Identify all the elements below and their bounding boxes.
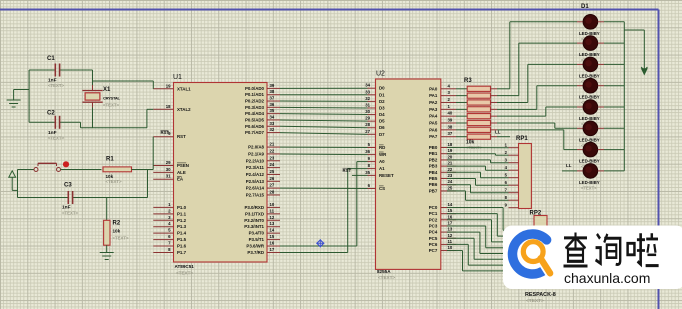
- svg-text:P2.7/A15: P2.7/A15: [246, 193, 265, 198]
- svg-text:25: 25: [270, 169, 275, 174]
- svg-text:PA6: PA6: [429, 127, 438, 132]
- svg-text:PB4: PB4: [429, 170, 438, 175]
- svg-text:D6: D6: [379, 125, 385, 130]
- svg-text:34: 34: [270, 115, 275, 120]
- svg-text:PA0: PA0: [429, 86, 438, 91]
- svg-text:P1.6: P1.6: [177, 244, 187, 249]
- svg-text:PA3: PA3: [429, 107, 438, 112]
- svg-text:23: 23: [448, 173, 453, 178]
- svg-text:P3.0/RXD: P3.0/RXD: [244, 205, 264, 210]
- svg-text:LED-BIBY: LED-BIBY: [579, 31, 600, 36]
- svg-text:P3.3/INT1: P3.3/INT1: [244, 224, 264, 229]
- svg-text:CS: CS: [379, 186, 385, 191]
- svg-text:10: 10: [448, 245, 453, 250]
- svg-text:CRYSTAL: CRYSTAL: [103, 96, 121, 101]
- svg-text:<TEXT>: <TEXT>: [526, 298, 544, 304]
- svg-text:P0.5/AD5: P0.5/AD5: [245, 118, 265, 123]
- svg-text:P3.2/INT0: P3.2/INT0: [244, 218, 264, 223]
- svg-text:15: 15: [270, 234, 275, 239]
- svg-text:8255A: 8255A: [377, 269, 391, 274]
- svg-text:PB2: PB2: [429, 157, 438, 162]
- svg-text:PA4: PA4: [429, 114, 438, 119]
- svg-text:P1.4: P1.4: [177, 231, 187, 236]
- svg-text:24: 24: [448, 179, 453, 184]
- svg-text:<TEXT>: <TEXT>: [48, 83, 64, 88]
- svg-text:26: 26: [270, 176, 275, 181]
- svg-text:38: 38: [270, 89, 275, 94]
- svg-text:PA7: PA7: [429, 134, 438, 139]
- svg-text:18: 18: [166, 104, 171, 109]
- svg-text:P3.5/T1: P3.5/T1: [249, 237, 265, 242]
- svg-text:LED-BIBY: LED-BIBY: [579, 73, 600, 78]
- svg-text:<TEXT>: <TEXT>: [378, 275, 395, 280]
- svg-text:P2.6/A14: P2.6/A14: [246, 186, 265, 191]
- svg-text:LED-BIBY: LED-BIBY: [579, 116, 600, 121]
- svg-text:32: 32: [365, 96, 370, 101]
- svg-text:40: 40: [448, 111, 453, 116]
- svg-text:C1: C1: [47, 56, 55, 62]
- svg-text:19: 19: [166, 83, 171, 88]
- svg-text:21: 21: [270, 142, 275, 147]
- svg-text:<TEXT>: <TEXT>: [176, 271, 193, 276]
- svg-text:PA5: PA5: [429, 121, 438, 126]
- svg-text:P2.0/A8: P2.0/A8: [248, 145, 264, 150]
- svg-text:P2.2/A10: P2.2/A10: [246, 158, 265, 163]
- svg-text:10k: 10k: [113, 229, 121, 234]
- svg-text:<TEXT>: <TEXT>: [62, 211, 78, 216]
- svg-text:P0.4/AD4: P0.4/AD4: [245, 111, 265, 116]
- svg-text:C3: C3: [64, 183, 72, 189]
- svg-text:P3.4/T0: P3.4/T0: [249, 231, 265, 236]
- svg-text:P0.6/AD6: P0.6/AD6: [245, 124, 265, 129]
- svg-text:D3: D3: [379, 106, 385, 111]
- svg-text:P1.1: P1.1: [177, 211, 187, 216]
- svg-text:29: 29: [166, 160, 171, 165]
- svg-text:D1: D1: [379, 92, 385, 97]
- svg-text:33: 33: [270, 121, 275, 126]
- svg-text:PB5: PB5: [429, 176, 438, 181]
- svg-text:36: 36: [365, 149, 370, 154]
- svg-text:25: 25: [448, 185, 453, 190]
- svg-text:12: 12: [448, 233, 453, 238]
- svg-text:D1: D1: [581, 4, 589, 10]
- svg-text:20: 20: [448, 154, 453, 159]
- svg-text:WR: WR: [379, 152, 387, 157]
- svg-text:12: 12: [270, 215, 275, 220]
- svg-text:P1.2: P1.2: [177, 218, 187, 223]
- svg-text:34: 34: [365, 83, 370, 88]
- svg-text:P3.6/WR: P3.6/WR: [246, 244, 264, 249]
- svg-text:PB7: PB7: [429, 188, 438, 193]
- svg-text:RST: RST: [161, 130, 170, 135]
- svg-text:<TEXT>: <TEXT>: [113, 236, 129, 241]
- svg-text:RESPACK-8: RESPACK-8: [525, 292, 556, 298]
- svg-text:A0: A0: [379, 159, 385, 164]
- svg-text:D7: D7: [379, 132, 385, 137]
- svg-text:PC4: PC4: [429, 230, 438, 235]
- svg-text:22: 22: [448, 167, 453, 172]
- svg-text:31: 31: [365, 103, 370, 108]
- svg-text:R1: R1: [106, 157, 114, 163]
- svg-text:21: 21: [448, 161, 453, 166]
- svg-text:LED-BIBY: LED-BIBY: [579, 52, 600, 57]
- svg-text:RST: RST: [177, 134, 186, 139]
- svg-text:D0: D0: [379, 86, 385, 91]
- svg-text:<TEXT>: <TEXT>: [581, 185, 597, 190]
- svg-text:28: 28: [365, 122, 370, 127]
- svg-text:38: 38: [448, 124, 453, 129]
- svg-text:15: 15: [448, 208, 453, 213]
- svg-text:PC5: PC5: [429, 236, 438, 241]
- svg-text:<TEXT>: <TEXT>: [48, 135, 64, 140]
- svg-text:39: 39: [270, 83, 275, 88]
- svg-text:R2: R2: [113, 221, 121, 227]
- svg-text:R3: R3: [464, 78, 472, 84]
- svg-text:LED-BIBY: LED-BIBY: [579, 95, 600, 100]
- svg-text:11: 11: [270, 208, 275, 213]
- svg-text:35: 35: [270, 108, 275, 113]
- svg-text:PA1: PA1: [429, 93, 438, 98]
- svg-text:27: 27: [365, 129, 370, 134]
- svg-text:17: 17: [448, 220, 453, 225]
- svg-text:16: 16: [448, 214, 453, 219]
- svg-text:XTAL1: XTAL1: [177, 86, 191, 91]
- svg-text:P1.0: P1.0: [177, 205, 187, 210]
- svg-text:14: 14: [448, 202, 453, 207]
- svg-text:PB1: PB1: [429, 151, 438, 156]
- svg-text:RD: RD: [379, 145, 385, 150]
- svg-text:P2.5/A13: P2.5/A13: [246, 179, 265, 184]
- svg-text:D2: D2: [379, 99, 385, 104]
- svg-text:P0.1/AD1: P0.1/AD1: [245, 92, 265, 97]
- svg-text:U2: U2: [376, 71, 385, 78]
- svg-text:PC7: PC7: [429, 248, 438, 253]
- svg-text:39: 39: [448, 118, 453, 123]
- svg-text:13: 13: [270, 221, 275, 226]
- svg-text:PA2: PA2: [429, 100, 438, 105]
- svg-text:PC1: PC1: [429, 211, 438, 216]
- svg-text:RESET: RESET: [379, 173, 394, 178]
- svg-text:31: 31: [166, 174, 171, 179]
- svg-text:LED-BIBY: LED-BIBY: [579, 159, 600, 164]
- svg-text:U1: U1: [173, 74, 182, 81]
- svg-text:16: 16: [270, 241, 275, 246]
- svg-text:XTAL2: XTAL2: [177, 107, 191, 112]
- svg-text:P0.3/AD3: P0.3/AD3: [245, 105, 265, 110]
- svg-text:37: 37: [448, 131, 453, 136]
- svg-text:<TEXT>: <TEXT>: [106, 179, 122, 184]
- svg-text:32: 32: [270, 127, 275, 132]
- svg-text:P1.3: P1.3: [177, 224, 187, 229]
- svg-text:PC6: PC6: [429, 242, 438, 247]
- svg-text:chaxunla.com: chaxunla.com: [564, 270, 650, 286]
- svg-text:P0.7/AD7: P0.7/AD7: [245, 130, 265, 135]
- svg-text:33: 33: [365, 89, 370, 94]
- svg-text:36: 36: [270, 102, 275, 107]
- svg-text:P3.1/TXD: P3.1/TXD: [245, 211, 264, 216]
- svg-text:EA: EA: [177, 177, 184, 182]
- svg-text:30: 30: [365, 109, 370, 114]
- svg-text:PC0: PC0: [429, 205, 438, 210]
- svg-text:P0.0/AD0: P0.0/AD0: [245, 86, 265, 91]
- svg-text:29: 29: [365, 116, 370, 121]
- svg-text:27: 27: [270, 183, 275, 188]
- svg-text:10: 10: [270, 202, 275, 207]
- svg-text:35: 35: [365, 170, 370, 175]
- svg-text:RP1: RP1: [516, 136, 528, 142]
- svg-text:24: 24: [270, 162, 275, 167]
- svg-text:X1: X1: [103, 87, 111, 93]
- svg-text:PB0: PB0: [429, 145, 438, 150]
- svg-text:LED-BIBY: LED-BIBY: [579, 137, 600, 142]
- svg-text:<TEXT>: <TEXT>: [103, 103, 119, 108]
- svg-text:11: 11: [448, 239, 453, 244]
- svg-text:RST: RST: [343, 168, 352, 173]
- svg-text:19: 19: [448, 148, 453, 153]
- svg-text:22: 22: [270, 148, 275, 153]
- svg-text:D5: D5: [379, 119, 385, 124]
- svg-text:P0.2/AD2: P0.2/AD2: [245, 99, 265, 104]
- svg-text:P1.5: P1.5: [177, 237, 187, 242]
- svg-text:LL: LL: [566, 163, 572, 168]
- svg-text:P2.1/A9: P2.1/A9: [248, 151, 264, 156]
- svg-text:23: 23: [270, 155, 275, 160]
- svg-text:ALE: ALE: [177, 170, 186, 175]
- svg-text:PB6: PB6: [429, 182, 438, 187]
- svg-text:PC2: PC2: [429, 217, 438, 222]
- svg-text:37: 37: [270, 96, 275, 101]
- svg-text:18: 18: [448, 142, 453, 147]
- svg-text:D4: D4: [379, 112, 385, 117]
- svg-text:AT89C51: AT89C51: [175, 264, 195, 269]
- svg-text:PC3: PC3: [429, 223, 438, 228]
- svg-text:PSEN: PSEN: [177, 163, 189, 168]
- svg-text:30: 30: [166, 167, 171, 172]
- svg-text:28: 28: [270, 190, 275, 195]
- svg-text:P1.7: P1.7: [177, 250, 187, 255]
- svg-text:P2.4/A12: P2.4/A12: [246, 172, 265, 177]
- svg-text:13: 13: [448, 227, 453, 232]
- svg-text:A1: A1: [379, 166, 385, 171]
- svg-text:LED-BIBY: LED-BIBY: [579, 180, 600, 185]
- svg-text:17: 17: [270, 247, 275, 252]
- svg-text:P2.3/A11: P2.3/A11: [246, 165, 265, 170]
- svg-text:PB3: PB3: [429, 164, 438, 169]
- svg-text:14: 14: [270, 228, 275, 233]
- svg-text:P3.7/RD: P3.7/RD: [247, 250, 264, 255]
- svg-text:C2: C2: [47, 111, 55, 117]
